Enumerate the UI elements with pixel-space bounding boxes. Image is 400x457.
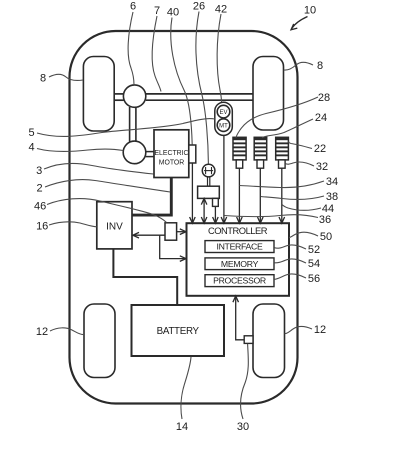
- svg-text:34: 34: [326, 176, 338, 188]
- leader 56: [274, 274, 306, 279]
- leader 8 top-right: [284, 62, 313, 70]
- shift knob circle 26: [202, 164, 215, 177]
- controller box 50: [187, 223, 290, 296]
- svg-text:INV: INV: [106, 222, 123, 233]
- leader 40: [171, 18, 192, 145]
- leader 4: [37, 149, 123, 152]
- electric motor label text: [154, 150, 188, 166]
- svg-text:ELECTRIC: ELECTRIC: [154, 150, 188, 157]
- shift lever stem (double line): [208, 177, 210, 187]
- memory box 54: [205, 258, 274, 270]
- EV/MT selector capsule 42: [215, 102, 233, 135]
- svg-text:MEMORY: MEMORY: [221, 259, 259, 269]
- leader 32: [285, 162, 314, 166]
- interface box 52: [205, 241, 274, 253]
- sensor connector 22 (striped): [276, 137, 289, 160]
- front axle right segment 7 (double line): [146, 94, 253, 100]
- leader 16: [49, 222, 97, 227]
- leader curves: [37, 12, 324, 420]
- svg-text:50: 50: [320, 231, 332, 243]
- leader 46: [47, 199, 167, 223]
- wire sensor22-to-controller 44 with arrow: [279, 168, 285, 223]
- svg-text:BATTERY: BATTERY: [157, 326, 200, 337]
- leader 12 left: [50, 328, 84, 335]
- vertical shaft 5 (double line): [130, 107, 136, 142]
- wire 46-to-controller with arrow: [177, 229, 186, 235]
- wire capsule-to-controller 36 with arrow: [221, 135, 227, 223]
- wire shift square-to-controller with arrow: [213, 206, 219, 223]
- shift connector square: [213, 198, 219, 206]
- arrow 10: [291, 17, 308, 30]
- battery sensor square 30: [244, 336, 253, 344]
- leader 30: [241, 344, 249, 419]
- svg-text:32: 32: [316, 161, 328, 173]
- sensor 24 neck: [257, 160, 264, 168]
- INV box 16: [97, 202, 132, 249]
- sensor connector 28 (striped): [233, 137, 246, 160]
- svg-text:22: 22: [314, 143, 326, 155]
- leader 22: [289, 142, 313, 149]
- svg-text:EV: EV: [219, 110, 227, 116]
- svg-text:8: 8: [317, 60, 323, 72]
- leader 50: [289, 232, 318, 237]
- H pattern glyph: [204, 167, 213, 174]
- svg-text:46: 46: [34, 201, 46, 213]
- svg-text:52: 52: [308, 244, 320, 256]
- leader 14: [181, 357, 191, 419]
- leader 12 right: [285, 326, 312, 333]
- leader 38: [261, 196, 324, 199]
- svg-text:12: 12: [36, 326, 48, 338]
- svg-text:40: 40: [167, 7, 179, 19]
- svg-text:6: 6: [130, 1, 136, 13]
- sensor 28 neck: [236, 160, 243, 168]
- wire sensor28-to-controller 34 with arrow: [237, 168, 243, 223]
- svg-text:2: 2: [37, 183, 43, 195]
- EV circle: [217, 105, 230, 118]
- vehicle body outline 10: [70, 31, 298, 404]
- leader 3: [44, 163, 154, 174]
- wire sensor30-to-controller with arrow: [233, 296, 244, 340]
- svg-text:5: 5: [29, 127, 35, 139]
- leader 7: [152, 16, 161, 92]
- bidirectional wire shift-to-controller: [201, 198, 207, 223]
- svg-text:36: 36: [319, 214, 331, 226]
- svg-text:56: 56: [308, 273, 320, 285]
- svg-text:24: 24: [315, 112, 327, 124]
- leader 42: [217, 14, 221, 102]
- svg-text:4: 4: [29, 142, 35, 154]
- svg-text:54: 54: [308, 258, 320, 270]
- svg-text:38: 38: [326, 191, 338, 203]
- motor sensor tab 40: [189, 145, 196, 163]
- wheel front-right 8: [253, 57, 284, 131]
- leader 24: [262, 119, 313, 138]
- gear circle 6: [123, 85, 145, 107]
- svg-text:3: 3: [36, 165, 42, 177]
- reference numeral labels: [29, 1, 339, 434]
- svg-text:MT: MT: [219, 123, 228, 129]
- svg-text:INTERFACE: INTERFACE: [216, 242, 263, 252]
- motor shaft 3 (double line): [146, 152, 155, 157]
- leader 5: [37, 119, 215, 137]
- connector box 46: [165, 223, 177, 240]
- MT circle: [217, 119, 230, 132]
- wire sensor24-to-controller 38 with arrow: [258, 168, 264, 223]
- svg-text:14: 14: [176, 421, 188, 433]
- sensor 22 neck 32: [279, 160, 286, 168]
- leader 8 top-left: [49, 74, 83, 80]
- leader 28: [236, 97, 318, 138]
- leader 36: [224, 215, 318, 218]
- svg-text:MOTOR: MOTOR: [159, 159, 185, 166]
- wire INV-to-battery: [113, 249, 177, 305]
- wire motor tab-to-controller with arrow: [190, 163, 196, 223]
- processor box 56: [205, 275, 274, 287]
- gear circle 4: [123, 141, 146, 164]
- front axle left segment (double line): [114, 94, 123, 100]
- wheel rear-left 12: [84, 304, 115, 378]
- leader 26: [196, 12, 209, 164]
- svg-text:12: 12: [314, 324, 326, 336]
- svg-text:28: 28: [318, 92, 330, 104]
- svg-text:8: 8: [40, 73, 46, 85]
- thick power wire motor-to-INV 2: [132, 178, 171, 216]
- svg-text:PROCESSOR: PROCESSOR: [213, 276, 266, 286]
- svg-text:CONTROLLER: CONTROLLER: [208, 225, 268, 236]
- sensor connector 24 (striped): [254, 137, 267, 160]
- wire branch to controller lower-left with arrow: [160, 235, 186, 261]
- svg-text:42: 42: [215, 4, 227, 16]
- svg-text:16: 16: [36, 221, 48, 233]
- wheel front-left 8: [83, 57, 114, 132]
- leader 52: [274, 245, 306, 249]
- leader 54: [274, 259, 306, 263]
- leader 2: [45, 180, 170, 192]
- svg-text:7: 7: [154, 5, 160, 17]
- leader 34: [240, 181, 325, 188]
- battery box 14: [132, 305, 225, 356]
- leader 44: [282, 205, 321, 211]
- wire 46-to-INV with arrow: [133, 232, 165, 238]
- shift device box: [198, 186, 220, 198]
- svg-text:10: 10: [304, 5, 316, 17]
- svg-text:30: 30: [237, 421, 249, 433]
- wheel rear-right 12: [253, 304, 285, 378]
- svg-text:26: 26: [193, 1, 205, 13]
- electric motor box: [154, 130, 189, 178]
- leader 6: [128, 12, 134, 85]
